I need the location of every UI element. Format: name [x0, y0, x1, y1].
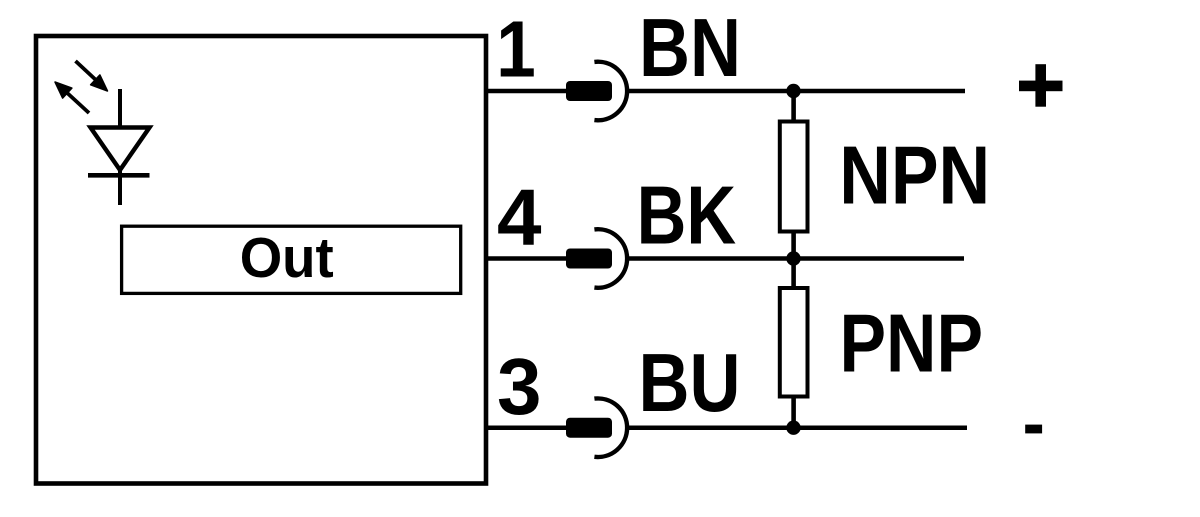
wire pin3 from box [486, 425, 570, 430]
resistor PNP load [780, 288, 808, 397]
wire BU to rail and minus [626, 425, 967, 430]
junction node BK/rail [786, 251, 800, 265]
light arrow upper (pointing to diode) [76, 61, 108, 91]
plug arc pin3 [594, 398, 627, 457]
photodiode D1 cathode lead wire [118, 89, 122, 205]
wire pin1 from box [486, 89, 570, 94]
plug connector pin4 [566, 249, 612, 269]
svg-text:1: 1 [496, 5, 536, 94]
minus terminal [1025, 425, 1042, 434]
svg-text:PNP: PNP [840, 297, 984, 390]
svg-text:BK: BK [637, 169, 737, 262]
wire BN to rail and plus [626, 89, 965, 94]
svg-text:3: 3 [497, 342, 542, 431]
svg-text:BN: BN [639, 1, 741, 94]
plug connector pin3 [566, 418, 612, 438]
plug connector pin1 [566, 81, 612, 101]
plug arc pin1 [594, 62, 627, 121]
wire BK to rail [626, 256, 964, 261]
resistor NPN load [780, 122, 808, 232]
pin 1 foot serif [508, 71, 533, 77]
photodiode D1 triangle [91, 128, 150, 171]
plug arc pin4 [594, 229, 627, 288]
Out block [122, 226, 461, 293]
plus terminal [1019, 64, 1063, 107]
svg-text:NPN: NPN [839, 129, 990, 222]
junction node BU/rail [786, 421, 800, 435]
sensor body box [36, 36, 486, 484]
junction node BN/rail [786, 84, 800, 98]
svg-text:Out: Out [240, 226, 334, 290]
light arrow lower (pointing away from diode) [55, 82, 89, 113]
rail wire vertical [791, 91, 796, 428]
photodiode D1 cathode bar [88, 173, 150, 178]
wire pin4 from box [486, 256, 570, 261]
svg-text:4: 4 [497, 173, 542, 262]
svg-text:BU: BU [639, 336, 741, 429]
